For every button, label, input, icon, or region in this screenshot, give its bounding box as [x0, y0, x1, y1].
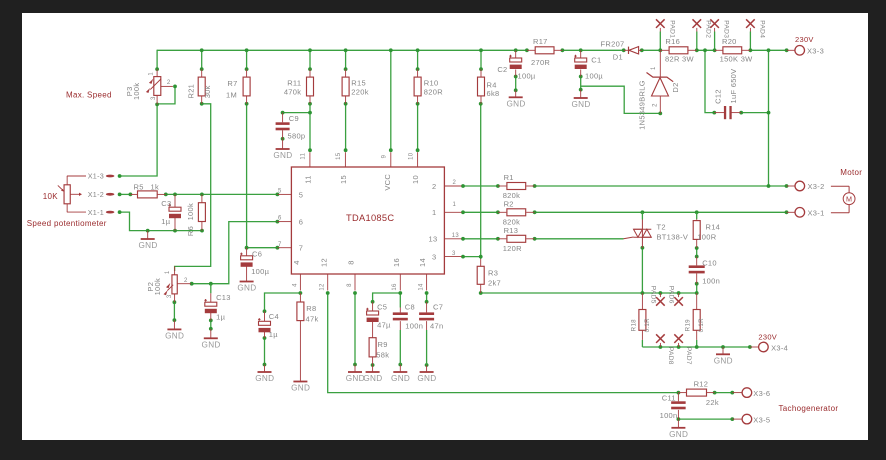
capacitor C1 100u electrolytic [574, 50, 603, 80]
svg-text:13: 13 [429, 235, 438, 244]
svg-text:R17: R17 [533, 37, 548, 46]
svg-text:X3-6: X3-6 [753, 389, 770, 398]
svg-text:GND: GND [255, 374, 274, 383]
svg-text:230V: 230V [758, 332, 777, 341]
resistor R14 100R [693, 219, 720, 248]
svg-text:R15: R15 [351, 79, 366, 88]
svg-text:GND: GND [291, 384, 310, 393]
svg-text:8: 8 [347, 260, 356, 264]
svg-text:22k: 22k [706, 398, 719, 407]
svg-text:GND: GND [346, 374, 365, 383]
resistor R13 120R [498, 226, 535, 253]
wire R14 / C10 column [695, 212, 699, 293]
svg-text:15: 15 [336, 152, 342, 160]
resistor R4 6k8 [478, 69, 500, 104]
svg-text:C8: C8 [405, 303, 415, 312]
resistor R9 58k [369, 338, 389, 365]
svg-text:X3-2: X3-2 [808, 182, 825, 191]
resistor R15 220k [342, 69, 369, 104]
ground below IC pin 8 [354, 365, 356, 373]
IC U1 TDA1085C [277, 152, 461, 290]
svg-text:R5: R5 [134, 183, 144, 192]
svg-text:1µ: 1µ [216, 313, 225, 322]
wire net 230V X3-4 row [642, 340, 751, 349]
svg-text:12: 12 [319, 258, 328, 267]
svg-text:D2: D2 [671, 82, 680, 92]
svg-text:100µ: 100µ [518, 72, 536, 81]
svg-text:14: 14 [418, 258, 427, 267]
svg-text:C2: C2 [497, 65, 507, 74]
connector X3-1 motor [787, 208, 825, 218]
svg-text:C4: C4 [269, 312, 279, 321]
svg-text:GND: GND [571, 100, 590, 109]
svg-text:7: 7 [278, 242, 282, 248]
svg-text:Max. Speed: Max. Speed [66, 91, 112, 100]
wire net IC pin 16 / C5 / C8 [371, 291, 402, 307]
ground below P2 [173, 320, 175, 329]
svg-text:2: 2 [184, 278, 188, 284]
svg-text:VCC: VCC [383, 174, 392, 191]
wire net IC pin 1 / R2 / triac / X3-1 [461, 210, 788, 214]
ground below C6 [246, 274, 248, 282]
wire net R11 bottom / C9 / IC pin 11 [281, 102, 312, 152]
svg-text:100R: 100R [697, 233, 716, 242]
svg-text:47k: 47k [306, 315, 319, 324]
svg-text:C9: C9 [289, 114, 299, 123]
capacitor C6 100u electrolytic [240, 248, 269, 277]
capacitor C12 1uF 650V [713, 69, 741, 120]
svg-text:R19: R19 [685, 319, 692, 332]
wire net R10 bottom to IC pin 10 [416, 102, 420, 152]
wire C2 bottom to GND [514, 75, 518, 93]
pad PAD5 [650, 286, 665, 306]
svg-text:5: 5 [278, 189, 282, 195]
svg-text:R7: R7 [227, 79, 237, 88]
connector X3-5 tacho [732, 404, 838, 424]
svg-text:PAD5: PAD5 [650, 286, 657, 304]
svg-text:C7: C7 [433, 303, 443, 312]
wire C4 bottom to GND [263, 336, 267, 366]
resistor R3 2k7 [477, 259, 501, 293]
svg-text:1M: 1M [226, 91, 237, 100]
svg-text:6: 6 [299, 218, 303, 227]
svg-text:PAD8: PAD8 [667, 347, 674, 365]
pad PAD1 [656, 19, 675, 38]
svg-text:100n: 100n [702, 277, 720, 286]
svg-text:100µ: 100µ [251, 267, 269, 276]
svg-text:10: 10 [411, 175, 420, 184]
svg-text:15: 15 [339, 175, 348, 184]
svg-text:3: 3 [452, 251, 456, 257]
wire net GND of X1-1 row [118, 210, 204, 232]
svg-text:R1: R1 [504, 173, 514, 182]
svg-text:30k: 30k [203, 85, 212, 98]
svg-text:0.1R: 0.1R [698, 318, 705, 333]
svg-text:PAD3: PAD3 [722, 20, 729, 38]
svg-text:1uF 650V: 1uF 650V [729, 69, 738, 104]
svg-text:7: 7 [299, 244, 303, 253]
svg-text:6: 6 [278, 216, 282, 222]
motor M symbol [831, 168, 862, 213]
svg-text:1: 1 [148, 72, 154, 76]
connector X3-6 tacho [732, 388, 770, 398]
svg-text:R3: R3 [488, 269, 498, 278]
pad PAD4 [746, 19, 765, 38]
ground below C4 [264, 365, 266, 373]
svg-text:GND: GND [363, 374, 382, 383]
svg-text:0.1R: 0.1R [644, 318, 651, 333]
ground symbol left GND net [147, 231, 149, 239]
svg-text:GND: GND [202, 340, 221, 349]
svg-text:X1-1: X1-1 [88, 208, 104, 217]
svg-text:GND: GND [237, 284, 256, 293]
svg-text:6k8: 6k8 [487, 89, 500, 98]
svg-text:3: 3 [432, 252, 436, 261]
svg-text:X1-2: X1-2 [88, 190, 104, 199]
svg-text:11: 11 [301, 152, 307, 159]
svg-text:270R: 270R [531, 58, 550, 67]
svg-text:47n: 47n [430, 321, 443, 330]
svg-text:Speed potentiometer: Speed potentiometer [27, 219, 107, 228]
svg-text:1µ: 1µ [161, 217, 170, 226]
connector X1-2 [88, 190, 115, 199]
svg-text:10K: 10K [43, 192, 58, 201]
svg-text:GND: GND [506, 99, 525, 108]
svg-text:R10: R10 [424, 79, 439, 88]
diode D1 FR207 [601, 40, 642, 62]
svg-text:C12: C12 [713, 89, 722, 104]
wire net R3 bottom row to pads and R18 R19 [479, 291, 699, 295]
svg-text:X3-4: X3-4 [771, 344, 788, 353]
svg-text:2: 2 [652, 103, 658, 107]
connector X3-2 motor [787, 181, 825, 191]
svg-text:8: 8 [347, 283, 353, 287]
wire C13 top connection [210, 284, 212, 294]
svg-text:47µ: 47µ [377, 321, 391, 330]
svg-text:BT138-V: BT138-V [657, 233, 689, 242]
svg-text:100k: 100k [186, 203, 195, 220]
svg-text:4: 4 [292, 283, 298, 287]
connector X3-4 230V [750, 332, 788, 352]
svg-text:58k: 58k [376, 351, 389, 360]
ground below C9 [282, 139, 284, 149]
pad PAD6 [668, 286, 683, 306]
ground below C11 [677, 419, 679, 428]
svg-text:GND: GND [165, 331, 184, 340]
svg-text:R18: R18 [630, 319, 637, 332]
wire net IC pin 14 / C7 [425, 291, 429, 367]
potentiometer P3 100k Max. Speed [66, 69, 173, 104]
connector X1-1 [67, 208, 114, 217]
svg-text:1: 1 [651, 66, 657, 70]
svg-text:X3-1: X3-1 [808, 209, 825, 218]
svg-text:4: 4 [292, 260, 301, 264]
svg-text:X3-3: X3-3 [807, 47, 824, 56]
ground on X3-4 row [722, 347, 724, 354]
wire net R21 bottom to P2 top [175, 102, 211, 271]
svg-text:C1: C1 [591, 56, 601, 65]
svg-text:R13: R13 [504, 226, 519, 235]
resistor R12 22k [678, 380, 719, 408]
capacitor C4 1u electrolytic [258, 311, 279, 339]
svg-text:R9: R9 [378, 340, 388, 349]
pad PAD3 [710, 19, 729, 38]
svg-text:D1: D1 [613, 52, 623, 61]
capacitor C8 100n [393, 303, 423, 365]
svg-text:T2: T2 [657, 223, 666, 232]
svg-text:100k: 100k [132, 83, 141, 100]
wire net IC pin 12 bottom rail to R12 / C11 [326, 291, 734, 394]
svg-text:2: 2 [432, 182, 436, 191]
svg-text:120R: 120R [503, 244, 522, 253]
ground below C1 [580, 90, 582, 98]
ground below C13 [210, 329, 212, 338]
resistor R21 30k [186, 69, 211, 104]
wire net IC pin 2 / R1 / X3-2 [461, 184, 788, 188]
svg-text:C6: C6 [252, 250, 262, 259]
svg-text:R21: R21 [186, 84, 195, 99]
resistor R11 470k [284, 69, 314, 104]
ground below R9 [372, 365, 374, 372]
svg-text:GND: GND [273, 151, 292, 160]
svg-text:5: 5 [299, 190, 303, 199]
zener diode D2 1N5349BRLG [637, 50, 680, 130]
svg-text:2: 2 [453, 180, 457, 186]
svg-text:16: 16 [392, 283, 398, 291]
svg-text:C3: C3 [161, 199, 171, 208]
svg-text:1: 1 [165, 270, 171, 274]
resistor R7 1M [226, 69, 250, 104]
svg-text:X3-5: X3-5 [753, 415, 770, 424]
svg-text:Motor: Motor [840, 168, 862, 177]
wire net IC pin 6 / P2 wiper [190, 220, 279, 286]
svg-text:100µ: 100µ [585, 72, 603, 81]
svg-text:470k: 470k [284, 88, 301, 97]
svg-text:13: 13 [452, 233, 460, 239]
svg-text:1: 1 [432, 208, 436, 217]
wire net IC pin 8 to GND [353, 291, 357, 366]
pad PAD2 [693, 19, 712, 38]
svg-text:R6: R6 [186, 226, 195, 236]
svg-text:R14: R14 [706, 223, 721, 232]
ground below C7 [426, 365, 428, 372]
svg-text:820R: 820R [424, 88, 443, 97]
capacitor C10 100n [689, 257, 720, 286]
svg-text:GND: GND [417, 374, 436, 383]
ground below R8 [293, 381, 307, 383]
wire net X1-2 / R5 / IC pin 5 [118, 193, 280, 197]
svg-text:16: 16 [392, 258, 401, 267]
svg-text:R8: R8 [306, 304, 316, 313]
svg-text:82R 3W: 82R 3W [665, 55, 695, 64]
wire net R15 bottom to IC pin 15 [344, 102, 348, 152]
svg-text:100n: 100n [405, 321, 423, 330]
resistor R20 150K 3W [715, 37, 754, 63]
wire net X3-5 row [677, 417, 735, 421]
svg-text:PAD4: PAD4 [758, 20, 765, 38]
resistor R10 820R [414, 69, 443, 104]
connector X3-3 230V [787, 35, 824, 56]
svg-text:150K 3W: 150K 3W [720, 55, 754, 64]
svg-text:C13: C13 [216, 293, 231, 302]
svg-text:1k: 1k [151, 183, 160, 192]
svg-text:12: 12 [320, 283, 326, 291]
svg-text:1N5349BRLG: 1N5349BRLG [637, 80, 646, 130]
svg-text:R16: R16 [665, 37, 680, 46]
svg-text:3: 3 [151, 96, 157, 100]
wire C13 bottom to GND [209, 319, 213, 331]
svg-text:10: 10 [408, 152, 414, 160]
resistor R16 82R 3W [660, 37, 697, 63]
svg-text:2k7: 2k7 [488, 279, 501, 288]
resistor R18 0.1R [630, 293, 651, 340]
svg-text:PAD7: PAD7 [685, 347, 692, 365]
resistor R17 270R [527, 37, 563, 67]
svg-text:GND: GND [669, 430, 688, 439]
wire mains top rail net 230V [155, 32, 788, 187]
capacitor C7 47n [419, 302, 443, 365]
svg-text:Tachogenerator: Tachogenerator [779, 404, 839, 413]
ground below C8 [399, 365, 401, 373]
wire net IC pin 13 / R13 / triac gate [461, 237, 623, 241]
capacitor C13 1u electrolytic [204, 293, 230, 322]
svg-text:3: 3 [167, 294, 173, 298]
wire net IC pin 4 / C4 / R8 [263, 291, 303, 313]
resistor R8 47k [297, 293, 319, 382]
svg-text:220k: 220k [351, 88, 368, 97]
svg-text:R2: R2 [504, 199, 514, 208]
svg-text:TDA1085C: TDA1085C [346, 213, 394, 223]
svg-text:2: 2 [167, 80, 171, 86]
pad PAD8 [656, 334, 674, 364]
capacitor C11 100n [660, 393, 686, 421]
svg-text:C5: C5 [377, 303, 387, 312]
svg-text:R12: R12 [694, 380, 709, 389]
capacitor C9 580p [276, 113, 306, 141]
svg-text:R11: R11 [287, 79, 301, 88]
svg-text:GND: GND [391, 374, 410, 383]
resistor R5 1k [130, 183, 165, 198]
svg-text:GND: GND [138, 241, 157, 250]
svg-text:R20: R20 [722, 37, 737, 46]
resistor R19 0.1R [685, 293, 706, 340]
svg-text:PAD6: PAD6 [668, 286, 675, 304]
wire P2 bottom to GND [173, 300, 177, 322]
svg-text:11: 11 [303, 175, 312, 183]
capacitor C2 100u electrolytic [497, 50, 536, 80]
potentiometer 10K speed pot [27, 176, 107, 228]
svg-text:230V: 230V [795, 35, 814, 44]
capacitor C5 47u electrolytic [366, 302, 391, 338]
potentiometer P2 100k [146, 266, 191, 302]
capacitor C3 1u electrolytic [161, 194, 181, 230]
svg-text:FR207: FR207 [601, 40, 625, 49]
svg-text:PAD1: PAD1 [668, 20, 675, 38]
svg-text:9: 9 [382, 154, 388, 158]
svg-text:C11: C11 [662, 394, 676, 403]
wire R9 and C8 bottoms to GND [371, 363, 402, 367]
svg-text:14: 14 [419, 283, 425, 291]
pad PAD7 [674, 334, 692, 364]
svg-text:1: 1 [453, 202, 457, 208]
svg-text:580p: 580p [288, 132, 306, 141]
triac T2 BT138-V [624, 220, 689, 249]
svg-text:100n: 100n [660, 411, 678, 420]
wire net X1-3 to P3 bottom and wiper [118, 85, 177, 178]
resistor R6 100k [186, 194, 205, 236]
svg-text:GND: GND [714, 356, 733, 365]
wire net R7 bottom / C6 / IC pin 7 [245, 102, 280, 250]
svg-text:X1-3: X1-3 [88, 172, 104, 181]
resistor R1 820k [498, 173, 535, 200]
svg-text:100k: 100k [153, 278, 162, 295]
ground below C2 [515, 90, 517, 97]
svg-text:M: M [846, 195, 852, 204]
svg-text:1µ: 1µ [269, 330, 278, 339]
wire C1 bottom / branch to zener D2 anode [579, 75, 662, 116]
wire triac MT2 / MT1 connections [641, 212, 645, 293]
wire net IC pin 3 / R4 bottom / R3 top [461, 102, 483, 259]
connector X1-3 [67, 172, 114, 181]
resistor R2 820k [498, 199, 535, 226]
svg-text:PAD2: PAD2 [704, 20, 711, 38]
svg-text:C10: C10 [702, 259, 717, 268]
